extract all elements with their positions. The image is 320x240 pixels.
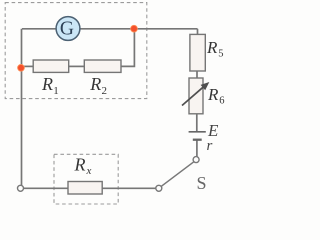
switch blade <box>161 162 194 187</box>
svg-text:1: 1 <box>53 85 59 97</box>
resistor R5 <box>190 34 205 71</box>
battery short plate <box>193 139 202 141</box>
switch lower contact circle (right terminal) <box>156 185 162 191</box>
galvanometer G <box>56 17 80 41</box>
svg-text:2: 2 <box>102 85 108 97</box>
wire top horizontal <box>22 28 198 30</box>
svg-text:R: R <box>89 74 101 94</box>
wire R1 to R2 <box>69 65 85 67</box>
resistor R6 (rheostat) <box>189 78 203 114</box>
battery E long plate <box>189 131 206 133</box>
resistor R2 <box>84 60 121 72</box>
label R5 <box>206 38 224 59</box>
svg-text:5: 5 <box>218 48 223 59</box>
wire left vertical <box>21 29 23 186</box>
svg-text:r: r <box>207 138 213 154</box>
svg-text:R: R <box>41 74 53 94</box>
dashed box around Rx <box>54 154 118 204</box>
label R1 <box>41 74 59 97</box>
wire battery to switch <box>196 140 198 156</box>
node B junction dot <box>131 25 138 32</box>
left terminal circle <box>18 185 24 191</box>
wire top right corner down to R5 <box>197 29 199 35</box>
svg-text:S: S <box>197 173 207 193</box>
svg-text:R: R <box>74 155 86 175</box>
label R6 <box>207 85 225 106</box>
dashed box around G R1 R2 (measuring branch) <box>5 3 147 99</box>
resistor R1 <box>33 60 68 72</box>
switch upper contact circle <box>193 157 199 163</box>
svg-text:G: G <box>60 19 74 40</box>
wire R5 to R6 <box>196 71 198 78</box>
rheostat arrow on R6 <box>182 82 209 106</box>
resistor Rx <box>68 182 102 195</box>
svg-text:R: R <box>206 38 218 57</box>
wire R2 right and up to node B <box>121 29 134 67</box>
wire Rx to switch circle <box>102 187 156 189</box>
wire node A to R1 <box>21 65 33 67</box>
svg-text:6: 6 <box>219 95 224 106</box>
svg-text:x: x <box>86 165 92 177</box>
label Rx <box>74 155 92 177</box>
svg-text:R: R <box>207 85 219 104</box>
label R2 <box>89 74 107 97</box>
node A junction dot <box>18 64 25 71</box>
wire bottom left circle to Rx <box>24 187 69 189</box>
wire R6 to battery <box>196 114 198 131</box>
